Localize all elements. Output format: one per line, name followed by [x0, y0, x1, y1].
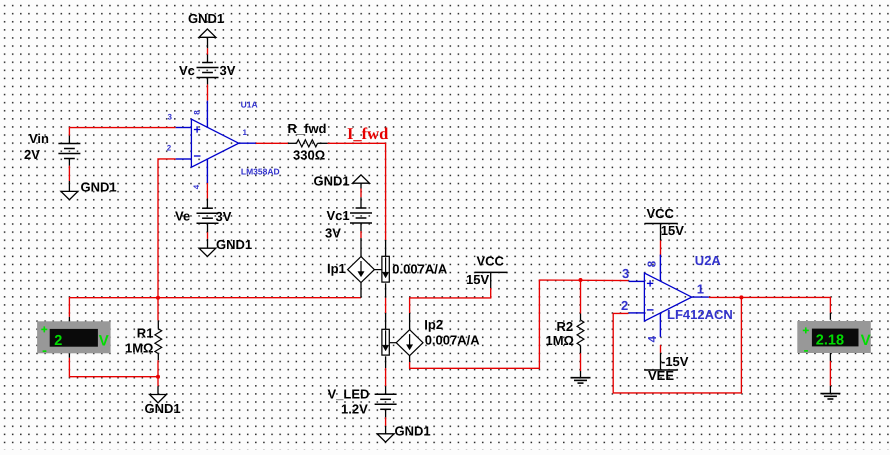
svg-text:V: V — [99, 333, 109, 350]
svg-text:V_LED: V_LED — [328, 386, 370, 401]
svg-text:330Ω: 330Ω — [293, 148, 325, 163]
svg-text:1: 1 — [697, 281, 704, 296]
svg-text:Ip2: Ip2 — [424, 317, 443, 332]
svg-text:1MΩ: 1MΩ — [125, 340, 153, 355]
svg-text:GND1: GND1 — [314, 173, 350, 188]
svg-text:3V: 3V — [325, 226, 341, 241]
svg-text:3: 3 — [168, 113, 173, 122]
svg-text:4: 4 — [647, 335, 659, 342]
svg-text:Vin: Vin — [29, 131, 49, 146]
svg-text:GND1: GND1 — [216, 237, 252, 252]
svg-text:GND1: GND1 — [188, 11, 224, 26]
svg-text:Ve: Ve — [175, 209, 190, 224]
svg-text:3V: 3V — [220, 63, 236, 78]
svg-text:Vc1: Vc1 — [327, 208, 350, 223]
svg-text:3: 3 — [622, 266, 629, 281]
svg-text:3V: 3V — [216, 209, 232, 224]
svg-text:GND1: GND1 — [81, 179, 117, 194]
svg-text:R2: R2 — [557, 319, 574, 334]
svg-text:LF412ACN: LF412ACN — [667, 307, 733, 322]
svg-text:2.18: 2.18 — [816, 333, 844, 349]
svg-text:2: 2 — [621, 298, 628, 313]
svg-text:-15V: -15V — [661, 354, 689, 369]
svg-text:0.007A/A: 0.007A/A — [425, 332, 481, 347]
svg-text:2V: 2V — [24, 147, 40, 162]
svg-text:GND1: GND1 — [395, 423, 431, 438]
svg-text:2: 2 — [167, 144, 172, 153]
svg-text:R1: R1 — [137, 325, 154, 340]
svg-text:VCC: VCC — [477, 254, 505, 269]
svg-text:8: 8 — [646, 260, 658, 267]
svg-text:GND1: GND1 — [145, 401, 181, 416]
svg-text:2: 2 — [54, 333, 62, 349]
svg-text:8: 8 — [193, 110, 202, 115]
svg-text:1: 1 — [243, 128, 248, 137]
svg-text:1.2V: 1.2V — [341, 401, 368, 416]
svg-text:0.007A/A: 0.007A/A — [392, 261, 448, 276]
svg-text:I_fwd: I_fwd — [347, 124, 388, 143]
svg-text:VCC: VCC — [647, 206, 675, 221]
svg-text:15V: 15V — [661, 223, 684, 238]
svg-text:15V: 15V — [466, 272, 489, 287]
svg-text:U1A: U1A — [241, 100, 258, 110]
svg-text:Ip1: Ip1 — [327, 261, 346, 276]
svg-text:VEE: VEE — [648, 368, 674, 383]
svg-text:1MΩ: 1MΩ — [546, 333, 574, 348]
svg-text:4: 4 — [192, 184, 201, 189]
svg-text:R_fwd: R_fwd — [288, 121, 327, 136]
svg-text:V: V — [861, 332, 871, 349]
svg-text:Vc: Vc — [179, 63, 195, 78]
svg-text:LM358AD: LM358AD — [241, 167, 280, 177]
svg-text:U2A: U2A — [695, 253, 722, 268]
